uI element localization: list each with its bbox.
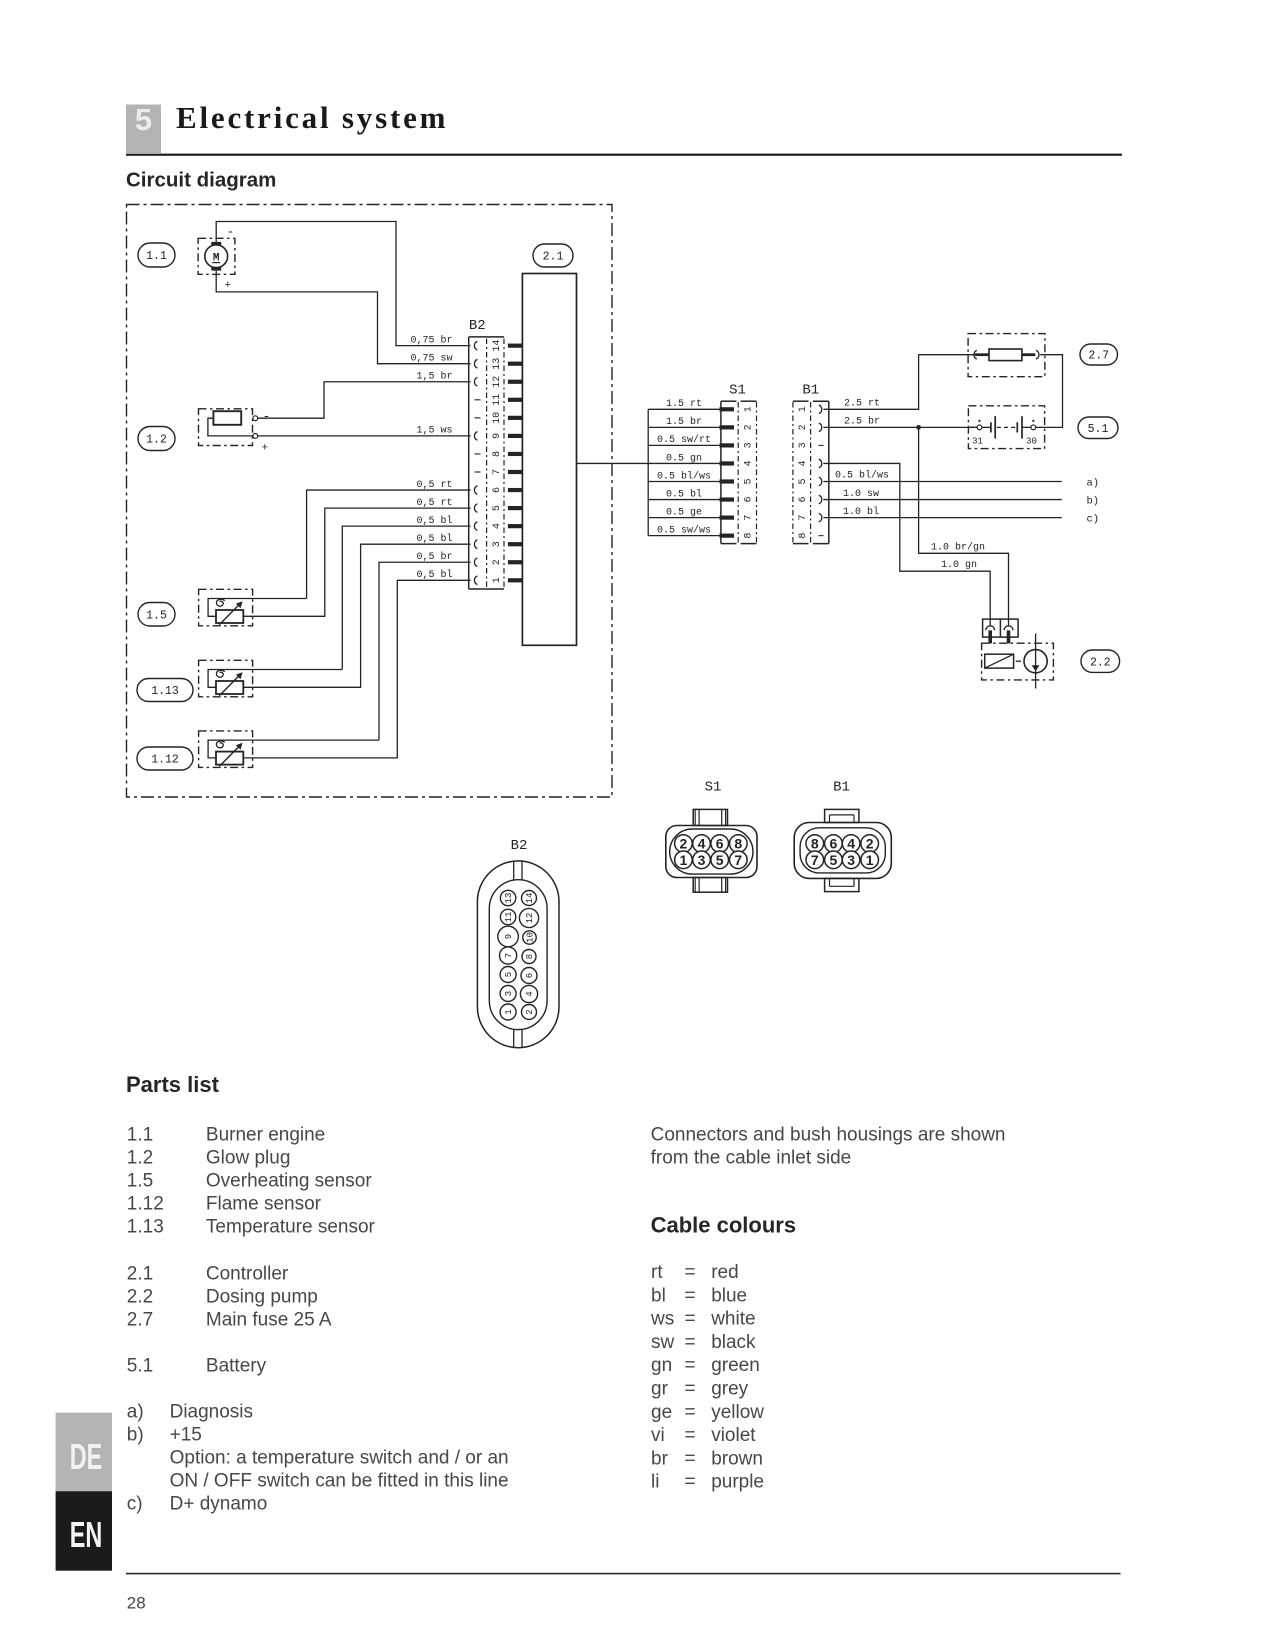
footer rule [126, 1573, 1121, 1575]
S1 pin holes with numbers [675, 835, 747, 869]
svg-text:yellow: yellow [711, 1402, 764, 1423]
svg-text:5: 5 [135, 102, 152, 137]
wire 0,5 bl: temperature sensor to B2 pin 1 [243, 580, 470, 758]
svg-text:1.12: 1.12 [151, 754, 179, 767]
glow plug R1 (1.2) [199, 409, 271, 455]
wire 2.5 br: B1 pin 2 to battery terminal 31 [823, 426, 977, 428]
svg-text:1.1: 1.1 [146, 250, 167, 263]
svg-text:3: 3 [492, 541, 503, 547]
svg-text:0,5 bl: 0,5 bl [416, 515, 452, 527]
svg-text:c): c) [127, 1494, 143, 1515]
svg-text:0.5 sw/ws: 0.5 sw/ws [657, 524, 711, 536]
wire 1.0 bl: B1 pin 7 to c) D+ [823, 517, 1061, 519]
svg-text:2.7: 2.7 [1088, 350, 1109, 363]
svg-text:0.5 bl: 0.5 bl [666, 488, 702, 500]
svg-text:0.5 sw/rt: 0.5 sw/rt [657, 434, 711, 446]
svg-text:=: = [685, 1332, 696, 1353]
B1 pin numbers 1-8 [798, 406, 809, 538]
label oval 1.13 [137, 679, 193, 702]
svg-text:1.13: 1.13 [127, 1216, 164, 1237]
svg-text:6: 6 [492, 487, 503, 493]
B1 socket arcs [819, 405, 824, 536]
svg-text:=: = [685, 1425, 696, 1446]
svg-text:br: br [651, 1448, 669, 1469]
svg-text:8: 8 [744, 533, 755, 539]
svg-text:4: 4 [698, 836, 706, 852]
wire 1.0 sw: B1 pin 6 to b) +15 [823, 499, 1061, 501]
wire 1.0 br/gn: junction to dosing pump pin [919, 427, 1009, 626]
flame sensor B4 (1.13) temperature-type sensor symbol [199, 660, 343, 697]
svg-text:1,5 ws: 1,5 ws [416, 426, 452, 437]
svg-text:3: 3 [698, 852, 706, 868]
svg-text:B1: B1 [802, 383, 819, 399]
svg-text:2: 2 [680, 836, 688, 852]
svg-text:8: 8 [492, 451, 503, 457]
wire 0,5 bl: flame sensor to B2 pin 4 [342, 526, 470, 669]
svg-text:2: 2 [492, 559, 503, 565]
svg-text:0,5 bl: 0,5 bl [416, 569, 452, 581]
svg-text:2.5 br: 2.5 br [844, 416, 880, 428]
svg-text:10: 10 [492, 412, 503, 424]
svg-text:=: = [685, 1262, 696, 1283]
svg-text:1.13: 1.13 [151, 685, 179, 698]
svg-text:D+ dynamo: D+ dynamo [170, 1494, 268, 1515]
svg-text:31: 31 [972, 437, 983, 447]
svg-text:13: 13 [492, 358, 503, 370]
svg-text:green: green [711, 1355, 760, 1376]
svg-text:3: 3 [504, 991, 514, 996]
wire 0.5 sw/rt to S1 pin 3 [648, 444, 719, 446]
svg-text:2: 2 [525, 1009, 535, 1014]
svg-text:5: 5 [798, 478, 809, 484]
svg-text:8: 8 [811, 836, 819, 852]
wire 0,5 gn: controller to S1 pin 4 [577, 462, 721, 464]
wire 0,5 rt: overheating sensor to B2 pin 6 [307, 490, 471, 598]
svg-text:=: = [685, 1285, 696, 1306]
svg-text:B2: B2 [511, 838, 528, 854]
svg-text:4: 4 [492, 523, 503, 529]
svg-text:14: 14 [492, 340, 503, 352]
svg-text:brown: brown [711, 1448, 763, 1469]
dosing pump Y1 (2.2) connector block [983, 619, 1019, 643]
svg-text:=: = [685, 1402, 696, 1423]
svg-text:=: = [685, 1448, 696, 1469]
svg-text:c): c) [1087, 514, 1100, 526]
label oval 1.12 [137, 747, 193, 770]
svg-text:blue: blue [711, 1285, 747, 1306]
svg-text:0.5 bl/ws: 0.5 bl/ws [835, 470, 889, 482]
svg-text:1.12: 1.12 [127, 1193, 164, 1214]
svg-text:red: red [711, 1262, 738, 1283]
svg-text:1: 1 [798, 406, 809, 412]
wire 0.5 ge to S1 pin 7 [648, 517, 719, 519]
label oval 1.1 [138, 243, 175, 267]
svg-text:5: 5 [492, 505, 503, 511]
svg-text:Flame sensor: Flame sensor [206, 1193, 322, 1214]
svg-text:13: 13 [504, 893, 514, 904]
svg-text:rt: rt [651, 1262, 663, 1283]
svg-text:0.5 gn: 0.5 gn [666, 453, 702, 464]
svg-text:1.2: 1.2 [127, 1147, 153, 1168]
svg-text:1.5: 1.5 [127, 1170, 153, 1191]
svg-text:bl: bl [651, 1285, 666, 1306]
svg-text:B2: B2 [469, 318, 486, 334]
parts list entries [127, 1124, 376, 1376]
svg-text:14: 14 [525, 893, 535, 904]
svg-text:1.0 sw: 1.0 sw [843, 489, 879, 500]
wire 0,5 rt: overheating sensor to B2 pin 5 [243, 508, 470, 616]
svg-text:12: 12 [525, 913, 535, 924]
svg-text:Glow plug: Glow plug [206, 1147, 291, 1168]
svg-text:1.0 br/gn: 1.0 br/gn [931, 541, 985, 553]
battery G1 (5.1) [968, 406, 1044, 449]
S1 harness bundle bracket [647, 409, 649, 535]
svg-text:violet: violet [711, 1425, 756, 1446]
svg-text:=: = [685, 1355, 696, 1376]
S1 pin numbers 1-8 [744, 406, 755, 538]
heater unit dashed enclosure [127, 205, 613, 798]
svg-text:6: 6 [716, 836, 724, 852]
svg-text:gn: gn [651, 1355, 672, 1376]
svg-text:0,75 sw: 0,75 sw [410, 354, 452, 365]
svg-text:11: 11 [492, 394, 503, 406]
svg-text:EN: EN [70, 1516, 103, 1555]
svg-text:6: 6 [830, 836, 838, 852]
svg-text:2.2: 2.2 [1090, 656, 1111, 669]
header rule [126, 154, 1122, 156]
overheating sensor B3 (1.5) temperature-type sensor symbol [199, 589, 307, 626]
svg-text:B1: B1 [833, 780, 850, 796]
S1 plug housing outline [666, 809, 757, 892]
DE language tab [56, 1413, 112, 1492]
connector B2 housing strip [469, 337, 504, 589]
svg-text:1.2: 1.2 [146, 434, 167, 447]
svg-text:0,75 br: 0,75 br [410, 334, 452, 346]
svg-text:1.5 br: 1.5 br [666, 416, 702, 428]
svg-text:DE: DE [70, 1438, 103, 1477]
svg-text:5: 5 [830, 852, 838, 868]
cable colour legend [650, 1262, 764, 1493]
svg-text:5.1: 5.1 [127, 1355, 153, 1376]
svg-text:6: 6 [798, 497, 809, 503]
svg-text:2.1: 2.1 [127, 1263, 153, 1284]
svg-text:Parts list: Parts list [126, 1072, 220, 1097]
svg-text:ON / OFF switch can be fitted: ON / OFF switch can be fitted in this li… [170, 1471, 509, 1492]
svg-text:0,5 rt: 0,5 rt [416, 480, 452, 491]
svg-text:1: 1 [492, 577, 503, 583]
svg-text:4: 4 [525, 991, 535, 996]
B2 socket arcs [474, 341, 480, 584]
wire 0.5 bl to S1 pin 6 [648, 499, 719, 501]
svg-text:1: 1 [504, 1009, 514, 1014]
svg-text:b): b) [127, 1425, 144, 1446]
chapter number box 5 [126, 105, 161, 154]
svg-text:purple: purple [711, 1472, 764, 1493]
svg-text:8: 8 [734, 836, 742, 852]
svg-text:=: = [685, 1379, 696, 1400]
svg-text:gr: gr [651, 1379, 669, 1400]
svg-text:1,5 br: 1,5 br [416, 371, 452, 383]
dosing pump Y1 (2.2) body [982, 633, 1054, 688]
label oval 2.7 [1080, 344, 1118, 365]
svg-text:3: 3 [798, 442, 809, 448]
svg-text:5: 5 [744, 478, 755, 484]
svg-text:li: li [651, 1472, 659, 1493]
label oval 1.2 [138, 427, 175, 451]
svg-text:8: 8 [798, 533, 809, 539]
svg-text:7: 7 [744, 515, 755, 521]
wire 0,75 br: motor minus to B2 pin 14 [216, 222, 470, 346]
svg-text:+15: +15 [170, 1425, 202, 1446]
svg-text:+: + [225, 280, 232, 292]
svg-text:Controller: Controller [206, 1263, 289, 1284]
svg-text:4: 4 [744, 460, 755, 466]
B2 bush housing outline [477, 861, 559, 1048]
wire 1.5 rt to S1 pin 1 [648, 408, 719, 410]
svg-text:7: 7 [798, 515, 809, 521]
label oval 2.2 [1081, 650, 1120, 672]
wire 0.5 sw/ws to S1 pin 8 [648, 535, 719, 537]
svg-text:10: 10 [526, 932, 536, 943]
svg-text:black: black [711, 1332, 756, 1353]
svg-text:=: = [685, 1472, 696, 1493]
svg-text:12: 12 [492, 376, 503, 388]
svg-text:2.5 rt: 2.5 rt [844, 399, 880, 410]
wire: fuse to battery terminal 30 [1040, 355, 1062, 428]
label oval 1.5 [138, 603, 175, 627]
svg-text:1: 1 [866, 852, 874, 868]
svg-text:1.1: 1.1 [127, 1124, 153, 1145]
temperature sensor B5 (1.12) temperature-type sensor symbol [199, 731, 379, 768]
svg-text:+: + [262, 443, 269, 455]
svg-text:5: 5 [504, 972, 514, 977]
svg-text:1.5 rt: 1.5 rt [666, 399, 702, 410]
svg-text:Overheating sensor: Overheating sensor [206, 1170, 372, 1191]
svg-text:2.1: 2.1 [543, 251, 564, 264]
svg-text:0.5 bl/ws: 0.5 bl/ws [657, 470, 711, 482]
svg-text:Dosing pump: Dosing pump [206, 1286, 318, 1307]
motor M1 burner engine (1.1) [198, 225, 235, 293]
B1 bush holes with numbers [806, 835, 879, 869]
label oval 2.1 [533, 244, 573, 267]
wire 1,5 ws: glow plug plus to B2 pin 9 [258, 435, 471, 437]
B2 pin numbers 1-14 [492, 340, 503, 584]
svg-text:0,5 br: 0,5 br [416, 551, 452, 563]
svg-text:0,5 bl: 0,5 bl [416, 533, 452, 545]
svg-text:b): b) [1087, 496, 1100, 508]
wire 0,5 br: temperature sensor to B2 pin 2 [379, 562, 471, 740]
svg-text:a): a) [127, 1402, 144, 1423]
svg-text:2.7: 2.7 [127, 1309, 153, 1330]
svg-text:1.0 bl: 1.0 bl [843, 506, 879, 518]
wire 0,75 sw: motor plus to B2 pin 13 [216, 271, 470, 364]
B1 housing strip [793, 401, 829, 543]
svg-text:5: 5 [716, 852, 724, 868]
svg-text:=: = [685, 1309, 696, 1330]
svg-text:5.1: 5.1 [1088, 423, 1109, 436]
controller U1 (2.1) [522, 274, 576, 646]
wire 0.5 bl/ws: B1 pin 5 to a) diagnosis [823, 481, 1061, 483]
svg-text:7: 7 [811, 852, 819, 868]
svg-text:S1: S1 [729, 383, 746, 399]
svg-text:vi: vi [651, 1425, 665, 1446]
svg-text:Diagnosis: Diagnosis [170, 1402, 253, 1423]
svg-text:Option: a temperature switch a: Option: a temperature switch and / or an [170, 1448, 509, 1469]
svg-text:ws: ws [650, 1309, 674, 1330]
svg-text:white: white [710, 1309, 755, 1330]
svg-text:11: 11 [504, 912, 514, 923]
junction node on 2.5 br wire [916, 425, 921, 430]
svg-text:Connectors and bush housings a: Connectors and bush housings are shown [651, 1124, 1006, 1145]
svg-text:1: 1 [744, 406, 755, 412]
svg-text:Electrical system: Electrical system [176, 100, 448, 135]
svg-text:9: 9 [504, 934, 514, 939]
svg-text:Circuit diagram: Circuit diagram [126, 169, 276, 192]
wire 1.0 gn: B1 pin 4 to dosing pump pin [823, 463, 990, 626]
svg-text:ge: ge [651, 1402, 672, 1423]
wire 0.5 bl/ws to S1 pin 5 [648, 481, 719, 483]
svg-text:4: 4 [798, 460, 809, 466]
svg-text:2: 2 [744, 424, 755, 430]
svg-text:30: 30 [1026, 437, 1037, 447]
svg-text:3: 3 [847, 852, 855, 868]
S1 housing strip [721, 401, 757, 543]
svg-text:Burner engine: Burner engine [206, 1124, 325, 1145]
footnote list a) b) c) [127, 1402, 509, 1515]
main fuse F1 25A (2.7) [968, 334, 1045, 377]
svg-text:1.0 gn: 1.0 gn [941, 560, 977, 571]
svg-text:1: 1 [680, 852, 688, 868]
svg-text:7: 7 [492, 469, 503, 475]
svg-text:2: 2 [866, 836, 874, 852]
svg-text:Battery: Battery [206, 1355, 267, 1376]
svg-text:7: 7 [504, 953, 514, 958]
B1 bush housing outline [794, 809, 891, 891]
svg-text:Temperature sensor: Temperature sensor [206, 1216, 376, 1237]
svg-text:28: 28 [127, 1594, 146, 1613]
svg-text:3: 3 [744, 442, 755, 448]
EN language tab [56, 1491, 112, 1571]
B2 bush holes with pin numbers [498, 890, 539, 1020]
wire 2.5 rt: B1 pin 1 to main fuse [823, 355, 974, 410]
svg-text:9: 9 [492, 433, 503, 439]
svg-text:Main fuse 25 A: Main fuse 25 A [206, 1309, 332, 1330]
wire 0,5 bl: flame sensor to B2 pin 3 [243, 544, 470, 687]
svg-text:1.5: 1.5 [146, 609, 167, 622]
svg-text:2: 2 [798, 424, 809, 430]
wire 1,5 br: glow plug minus to B2 pin 12 [258, 382, 471, 418]
B2 controller pins (black) [508, 344, 523, 583]
wire 1.5 br to S1 pin 2 [648, 426, 719, 428]
svg-text:from the cable inlet side: from the cable inlet side [651, 1147, 852, 1168]
svg-text:4: 4 [847, 836, 855, 852]
label oval 5.1 [1078, 417, 1118, 439]
svg-text:8: 8 [525, 954, 535, 959]
svg-text:Cable colours: Cable colours [651, 1213, 796, 1238]
svg-text:6: 6 [525, 973, 535, 978]
svg-text:2.2: 2.2 [127, 1286, 153, 1307]
S1 plug pins (black) [720, 407, 735, 538]
svg-text:sw: sw [651, 1332, 675, 1353]
svg-text:a): a) [1087, 478, 1100, 490]
svg-text:grey: grey [711, 1379, 748, 1400]
svg-text:S1: S1 [705, 780, 722, 796]
svg-text:0.5 ge: 0.5 ge [666, 507, 702, 518]
svg-text:-: - [263, 409, 271, 424]
svg-text:-: - [227, 225, 235, 240]
svg-text:0,5 rt: 0,5 rt [416, 498, 452, 509]
svg-text:6: 6 [744, 497, 755, 503]
svg-text:7: 7 [734, 852, 742, 868]
